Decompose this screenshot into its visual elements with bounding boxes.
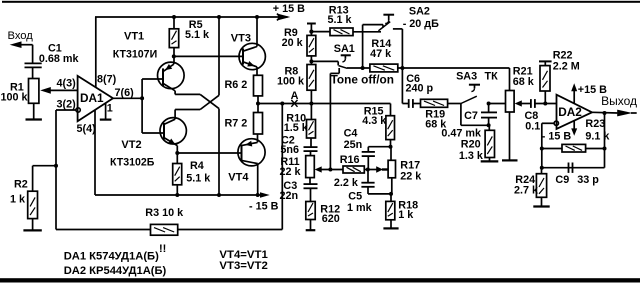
svg-text:DA2: DA2 [558, 105, 582, 119]
svg-text:VT1: VT1 [124, 30, 144, 42]
svg-text:R23: R23 [585, 118, 605, 130]
svg-text:SA3: SA3 [456, 70, 477, 82]
svg-text:VT3: VT3 [231, 33, 251, 45]
svg-text:4(3): 4(3) [57, 77, 77, 89]
svg-text:2.7 k: 2.7 k [514, 184, 539, 196]
svg-text:C7: C7 [464, 110, 478, 122]
svg-text:5.1 k: 5.1 k [185, 29, 210, 41]
svg-text:2.2 k: 2.2 k [334, 177, 359, 189]
svg-text:R20: R20 [461, 139, 481, 151]
svg-text:R3 10 k: R3 10 k [145, 207, 184, 219]
svg-text:33 p: 33 p [577, 174, 599, 186]
svg-text:DA1 К574УД1А(Б): DA1 К574УД1А(Б) [64, 250, 159, 262]
svg-text:4.3 k: 4.3 k [362, 115, 387, 127]
svg-text:7(6): 7(6) [115, 87, 135, 99]
svg-text:100 k: 100 k [277, 75, 305, 87]
svg-text:DA1: DA1 [80, 91, 104, 105]
svg-text:VT3=VT2: VT3=VT2 [219, 260, 267, 272]
svg-text:5.1 k: 5.1 k [328, 14, 353, 26]
svg-text:DA2 КР544УД1А(Б): DA2 КР544УД1А(Б) [64, 265, 167, 277]
svg-text:25n: 25n [344, 139, 363, 151]
svg-text:+ 15 В: + 15 В [273, 3, 305, 15]
svg-text:9.1 k: 9.1 k [585, 131, 610, 143]
svg-text:1.5 k: 1.5 k [284, 122, 309, 134]
svg-text:1.3 k: 1.3 k [459, 150, 484, 162]
svg-text:22 k: 22 k [280, 166, 302, 178]
svg-text:SA1: SA1 [334, 43, 355, 55]
svg-text:47 k: 47 k [370, 48, 392, 60]
svg-text:R2: R2 [14, 178, 28, 190]
svg-text:5(4): 5(4) [77, 123, 97, 135]
svg-text:C9: C9 [555, 174, 569, 186]
svg-text:КТ3107И: КТ3107И [113, 48, 157, 60]
svg-text:22 k: 22 k [400, 171, 422, 183]
svg-text:22n: 22n [280, 190, 299, 202]
svg-text:R16: R16 [340, 154, 360, 166]
svg-text:- 20 дБ: - 20 дБ [403, 18, 439, 30]
svg-text:68 k: 68 k [513, 76, 535, 88]
svg-text:3(2): 3(2) [57, 98, 77, 110]
svg-text:R6 2: R6 2 [225, 79, 248, 91]
svg-text:1 mk: 1 mk [347, 202, 373, 214]
svg-text:620: 620 [322, 213, 340, 225]
svg-text:- 15 В: - 15 В [542, 131, 572, 143]
svg-text:VT4: VT4 [228, 171, 249, 183]
svg-text:- 15 В: - 15 В [249, 200, 279, 212]
svg-text:C5: C5 [348, 191, 362, 203]
svg-text:1: 1 [107, 102, 113, 114]
svg-text:5.1 k: 5.1 k [186, 173, 211, 185]
svg-text:1 k: 1 k [398, 209, 414, 221]
svg-text:КТ3102Б: КТ3102Б [110, 156, 155, 168]
svg-text:0.68 mk: 0.68 mk [39, 53, 80, 65]
svg-text:SA2: SA2 [409, 6, 430, 18]
svg-text:!!: !! [159, 243, 166, 255]
svg-text:Вход: Вход [8, 30, 34, 42]
svg-text:R7 2: R7 2 [225, 118, 248, 130]
svg-text:5n6: 5n6 [280, 144, 299, 156]
svg-text:Выход: Выход [601, 94, 637, 108]
svg-text:100 k: 100 k [1, 92, 29, 104]
svg-text:8(7): 8(7) [97, 74, 117, 86]
svg-text:R22: R22 [553, 49, 573, 61]
svg-text:1 k: 1 k [10, 194, 26, 206]
svg-text:240 p: 240 p [406, 82, 434, 94]
svg-text:20 k: 20 k [282, 37, 304, 49]
svg-text:C4: C4 [344, 128, 358, 140]
svg-text:VT2: VT2 [121, 139, 141, 151]
svg-text:ТК: ТК [485, 70, 499, 82]
svg-text:0.1: 0.1 [525, 120, 540, 132]
svg-text:Tone off/on: Tone off/on [331, 73, 394, 87]
svg-text:2.2 M: 2.2 M [553, 61, 580, 73]
svg-text:R4: R4 [190, 160, 204, 172]
